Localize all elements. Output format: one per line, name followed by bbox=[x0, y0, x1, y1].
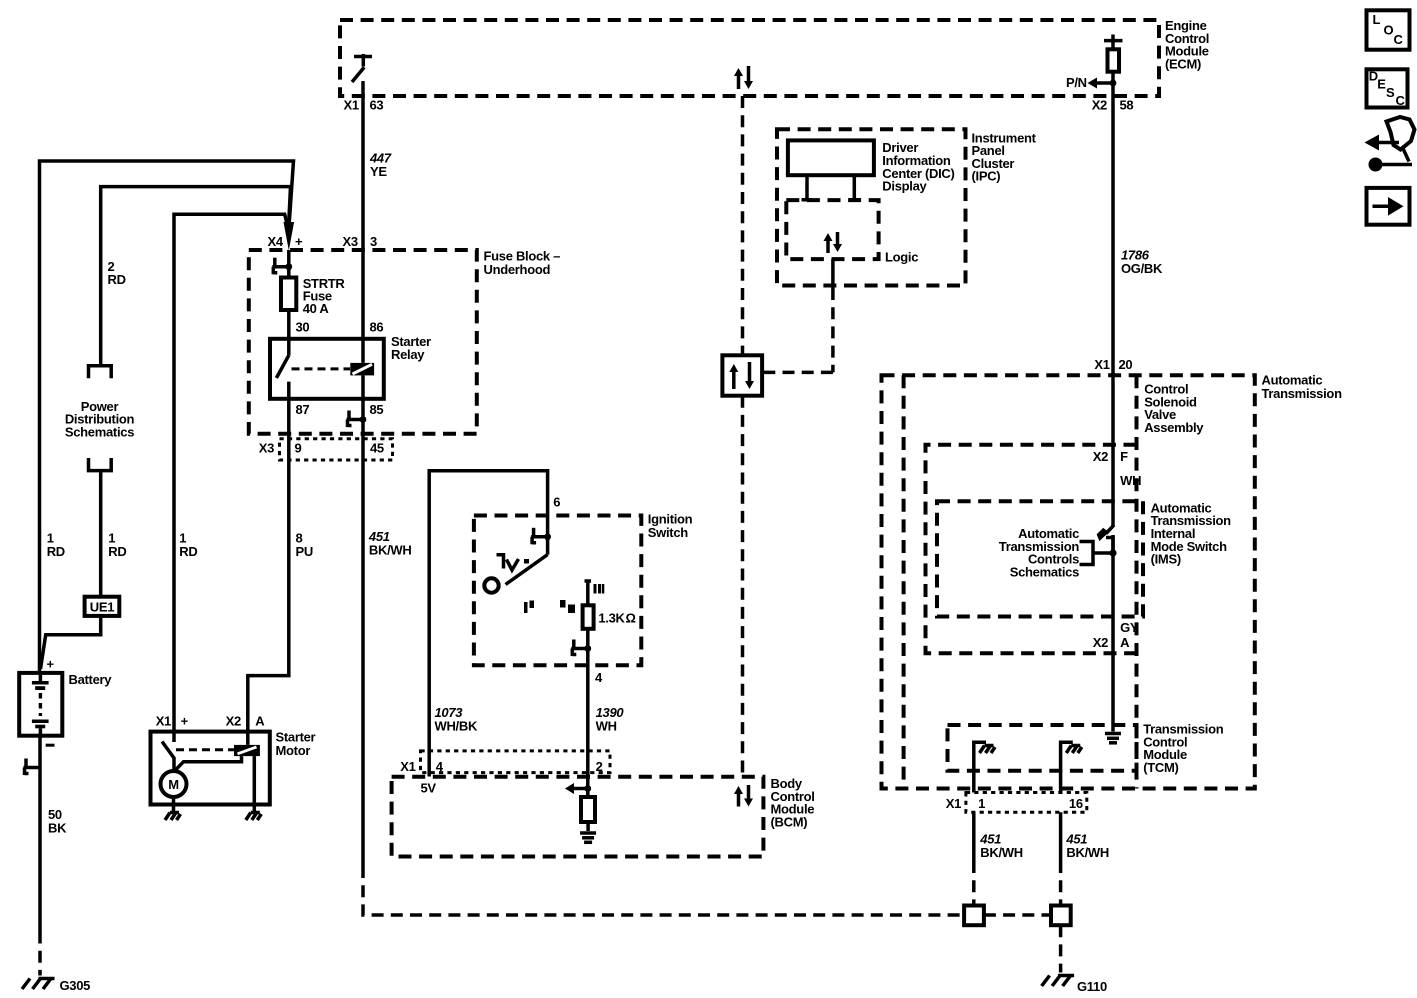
automatic transmission outer box bbox=[882, 375, 1255, 788]
svg-text:S: S bbox=[1386, 85, 1395, 100]
minus terminal label bbox=[46, 744, 55, 747]
DIC display bbox=[788, 140, 874, 200]
wire splice to G110 bbox=[1059, 925, 1063, 972]
svg-text:20: 20 bbox=[1119, 357, 1133, 372]
label Power Distribution Schematics bbox=[65, 399, 135, 440]
IMS box bbox=[937, 501, 1143, 616]
ground G305 bbox=[22, 978, 90, 993]
icon forward arrow bbox=[1367, 188, 1410, 225]
svg-text:Underhood: Underhood bbox=[484, 262, 551, 277]
svg-text:6: 6 bbox=[553, 494, 560, 509]
svg-text:58: 58 bbox=[1120, 97, 1134, 112]
relay link dashed bbox=[292, 367, 351, 370]
svg-text:WH: WH bbox=[596, 718, 617, 733]
label Starter Motor bbox=[276, 730, 316, 758]
tap below resistor bbox=[571, 640, 591, 657]
svg-text:Logic: Logic bbox=[885, 250, 918, 265]
connector X1 row BCM bbox=[421, 751, 611, 773]
svg-text:L: L bbox=[1373, 12, 1381, 27]
BCM serial arrows bbox=[734, 785, 753, 807]
IMS bracket to controls schematics bbox=[1080, 542, 1117, 565]
svg-text:X3: X3 bbox=[259, 441, 274, 456]
svg-text:BK: BK bbox=[48, 820, 67, 835]
svg-text:X3: X3 bbox=[343, 234, 358, 249]
label BCM bbox=[771, 776, 815, 829]
battery bbox=[19, 673, 62, 736]
label 2 RD bbox=[108, 259, 126, 287]
svg-text:RD: RD bbox=[108, 544, 126, 559]
node X3 3 bbox=[343, 234, 378, 249]
starter link dashed bbox=[176, 748, 234, 751]
continuation bracket (to Power Distribution) bbox=[89, 366, 112, 379]
svg-text:X1: X1 bbox=[156, 714, 171, 729]
svg-text:OG/BK: OG/BK bbox=[1121, 261, 1163, 276]
svg-text:X2: X2 bbox=[1093, 635, 1108, 650]
label Automatic Transmission bbox=[1262, 373, 1343, 402]
icon LOC bbox=[1367, 10, 1410, 49]
junction arrow into X4 bbox=[284, 222, 295, 251]
tap at relay 85 bbox=[347, 411, 367, 428]
ground G110 bbox=[1042, 976, 1107, 995]
TCM ground hook pin 1 bbox=[974, 742, 995, 792]
node X4 + bbox=[268, 234, 304, 249]
svg-text:Motor: Motor bbox=[276, 743, 311, 758]
relay box bbox=[270, 339, 384, 399]
svg-text:A: A bbox=[1120, 635, 1130, 650]
resistor in ECM (P/N pull-up) bbox=[1104, 35, 1123, 97]
label Logic bbox=[885, 250, 918, 265]
node X2 A bbox=[1093, 635, 1130, 650]
label Ignition Switch bbox=[648, 512, 693, 541]
svg-text:9: 9 bbox=[295, 441, 302, 456]
BCM box bbox=[392, 777, 764, 857]
wire serial data (ECM to gateway) bbox=[741, 96, 745, 355]
label 447 YE bbox=[369, 151, 392, 179]
switch inside ECM (crank request) bbox=[352, 54, 372, 82]
starter contact bbox=[162, 732, 174, 771]
svg-text:X2: X2 bbox=[1093, 449, 1108, 464]
svg-text:BK/WH: BK/WH bbox=[1066, 845, 1109, 860]
wire serial data (gateway to BCM) bbox=[741, 396, 745, 777]
BCM signal arrow bbox=[565, 783, 591, 794]
svg-text:85: 85 bbox=[370, 402, 384, 417]
svg-text:1: 1 bbox=[978, 796, 985, 811]
wire below resistor bbox=[586, 629, 590, 798]
svg-text:5V: 5V bbox=[421, 781, 437, 796]
svg-text:2: 2 bbox=[596, 759, 603, 774]
svg-text:X1: X1 bbox=[946, 796, 961, 811]
wire fuse to relay 30 bbox=[287, 310, 291, 356]
ignition switch box bbox=[474, 516, 641, 666]
svg-text:WH: WH bbox=[1120, 473, 1141, 488]
label 1786 OG/BK bbox=[1121, 248, 1163, 276]
label 1073 WH/BK bbox=[435, 705, 478, 733]
wire 447 YE (ECM X1-63 to relay coil 86) bbox=[361, 81, 365, 363]
svg-text:Ω: Ω bbox=[626, 610, 636, 625]
ignition blade and contact bbox=[484, 537, 547, 593]
wire 1073 WH/BK BCM to ignition 6 bbox=[429, 471, 547, 777]
node 4 bbox=[595, 670, 603, 685]
starter motor box bbox=[151, 732, 270, 805]
IMS switch blade bbox=[1097, 525, 1114, 553]
label 50 BK bbox=[48, 807, 67, 835]
BCM pull resistor bbox=[581, 797, 595, 831]
rotary arc marks bbox=[497, 553, 530, 570]
label Fuse Block Underhood bbox=[484, 249, 561, 277]
plus terminal label bbox=[47, 657, 55, 672]
node X2 F bbox=[1093, 449, 1128, 464]
svg-text:PU: PU bbox=[296, 544, 313, 559]
control solenoid valve assembly box bottom bbox=[926, 445, 1137, 653]
svg-text:86: 86 bbox=[370, 319, 384, 334]
fuse STRTR 40A bbox=[281, 278, 296, 311]
wire 1390 WH with resistor bbox=[585, 581, 592, 605]
logic box bbox=[786, 200, 878, 259]
solenoid ground bbox=[246, 756, 261, 820]
svg-text:1.3K: 1.3K bbox=[598, 610, 625, 625]
logic arrows bbox=[824, 232, 843, 253]
node 6 bbox=[553, 494, 560, 509]
TCM internal ground bbox=[1105, 734, 1121, 743]
label GY bbox=[1120, 620, 1139, 635]
label Battery bbox=[69, 672, 113, 687]
node X1 63 bbox=[344, 97, 384, 112]
module IPC box bbox=[777, 129, 966, 285]
tap at ignition 6 bbox=[531, 528, 551, 545]
label Automatic Transmission Controls Schematics bbox=[999, 526, 1080, 579]
svg-text:87: 87 bbox=[296, 402, 310, 417]
svg-text:YE: YE bbox=[370, 164, 387, 179]
label Control Solenoid Valve Assembly bbox=[1144, 382, 1204, 435]
connector X3 row bbox=[280, 439, 393, 460]
svg-text:30: 30 bbox=[296, 319, 310, 334]
node X1 20 bbox=[1094, 357, 1132, 372]
svg-text:+: + bbox=[181, 714, 189, 729]
labels 451 BK/WH at TCM bbox=[979, 832, 1023, 860]
label STRTR Fuse 40 A bbox=[303, 276, 346, 316]
tap at fuse feed bbox=[272, 258, 292, 275]
labels 1 RD row bbox=[47, 531, 65, 559]
wire relay 87 down (8 PU) to starter bbox=[248, 382, 289, 745]
motor ground bbox=[165, 797, 181, 820]
BCM ground bbox=[580, 833, 596, 842]
svg-text:A: A bbox=[255, 714, 265, 729]
starter solenoid bbox=[234, 745, 260, 756]
svg-text:G110: G110 bbox=[1077, 979, 1107, 994]
wire splice to splice bbox=[984, 913, 1051, 917]
signal arrow P/N bbox=[1066, 75, 1116, 90]
svg-text:Relay: Relay bbox=[391, 347, 425, 362]
svg-text:4: 4 bbox=[595, 670, 603, 685]
svg-text:RD: RD bbox=[108, 272, 126, 287]
label IMS bbox=[1151, 500, 1232, 566]
wire battery positive to X4 bbox=[40, 161, 294, 673]
svg-text:Battery: Battery bbox=[69, 672, 113, 687]
continuation bracket (from Power Distribution) bbox=[89, 458, 112, 471]
svg-text:+: + bbox=[295, 234, 303, 249]
gateway arrows box bbox=[722, 355, 762, 395]
svg-text:X2: X2 bbox=[1092, 97, 1107, 112]
wire 1786 OG/BK (ECM X2-58 down to transmission) bbox=[1111, 96, 1115, 526]
motor M bbox=[161, 771, 187, 797]
svg-text:UE1: UE1 bbox=[90, 600, 114, 615]
wire 2 RD to X4 bbox=[101, 187, 291, 365]
svg-text:RD: RD bbox=[47, 544, 65, 559]
wire IMS to TCM ground bbox=[1111, 535, 1115, 732]
starter pin labels bbox=[156, 714, 266, 729]
svg-text:+: + bbox=[47, 657, 55, 672]
relay contact blade bbox=[276, 355, 288, 378]
TCM ground hook pin 16 bbox=[1061, 742, 1082, 792]
svg-text:C: C bbox=[1394, 32, 1404, 47]
wire ground bus 451 BK/WH bbox=[363, 866, 964, 915]
label Starter Relay bbox=[391, 334, 431, 362]
tap at battery negative bbox=[24, 759, 41, 776]
svg-text:O: O bbox=[1384, 23, 1394, 38]
splice S2 bbox=[1051, 906, 1071, 926]
svg-text:M: M bbox=[168, 777, 179, 792]
svg-text:G305: G305 bbox=[60, 978, 91, 993]
TCM box bbox=[948, 725, 1137, 771]
wire 50 BK battery to G305 bbox=[38, 736, 42, 976]
wire TCM pin 16 to splice bbox=[1059, 812, 1063, 905]
position mark III bbox=[594, 584, 605, 594]
label DIC bbox=[882, 140, 954, 193]
position marks I II bbox=[524, 600, 575, 613]
svg-text:F: F bbox=[1120, 449, 1128, 464]
wire 1 RD bracket to UE1 to battery bbox=[41, 471, 101, 669]
label 451 BK/WH bbox=[368, 529, 412, 557]
svg-text:4: 4 bbox=[436, 759, 444, 774]
splice S1 bbox=[964, 906, 984, 926]
svg-text:Transmission: Transmission bbox=[1262, 386, 1343, 401]
module ECM box bbox=[340, 20, 1159, 96]
svg-text:GY: GY bbox=[1120, 620, 1139, 635]
svg-text:63: 63 bbox=[370, 97, 384, 112]
wire X4 to fuse bbox=[287, 250, 291, 278]
relay coil bbox=[350, 363, 374, 376]
fusible link UE1 bbox=[85, 597, 120, 616]
wire relay 85 down (451 BK/WH) bbox=[361, 375, 365, 866]
connector X1 row TCM bbox=[966, 793, 1087, 813]
serial data arrows at ECM bbox=[734, 66, 753, 89]
svg-text:Switch: Switch bbox=[648, 525, 688, 540]
svg-text:X2: X2 bbox=[226, 714, 241, 729]
fuse block box bbox=[249, 250, 477, 434]
svg-text:X1: X1 bbox=[344, 97, 359, 112]
wire TCM pin 1 to splice bbox=[972, 812, 976, 905]
svg-text:X4: X4 bbox=[268, 234, 284, 249]
solenoid to motor wire bbox=[175, 756, 242, 770]
label 1390 WH bbox=[596, 705, 625, 733]
node X2 58 bbox=[1092, 97, 1134, 112]
svg-text:C: C bbox=[1396, 93, 1406, 108]
svg-text:3: 3 bbox=[370, 234, 377, 249]
wire 1 RD starter to X4 bbox=[174, 214, 288, 731]
svg-text:X1: X1 bbox=[400, 759, 415, 774]
svg-text:WH/BK: WH/BK bbox=[435, 718, 478, 733]
icon DESC bbox=[1367, 69, 1408, 109]
label TCM bbox=[1143, 722, 1224, 775]
resistor 1.3K bbox=[583, 605, 636, 629]
svg-text:45: 45 bbox=[370, 441, 384, 456]
svg-text:16: 16 bbox=[1069, 796, 1083, 811]
relay pin labels bbox=[296, 319, 310, 334]
inner transmission box bbox=[904, 375, 1137, 788]
wire logic to gateway bbox=[762, 259, 833, 372]
svg-text:X1: X1 bbox=[1094, 357, 1109, 372]
icon swap arrows bbox=[1365, 117, 1415, 172]
label IPC bbox=[972, 130, 1037, 183]
label 8 PU bbox=[296, 531, 313, 559]
label ECM bbox=[1165, 18, 1209, 71]
svg-text:BK/WH: BK/WH bbox=[980, 845, 1023, 860]
svg-text:E: E bbox=[1377, 76, 1386, 91]
label 5V bbox=[421, 781, 437, 796]
svg-text:RD: RD bbox=[179, 544, 197, 559]
label WH bbox=[1120, 473, 1141, 488]
svg-text:BK/WH: BK/WH bbox=[369, 542, 412, 557]
svg-text:P/N: P/N bbox=[1066, 75, 1087, 90]
